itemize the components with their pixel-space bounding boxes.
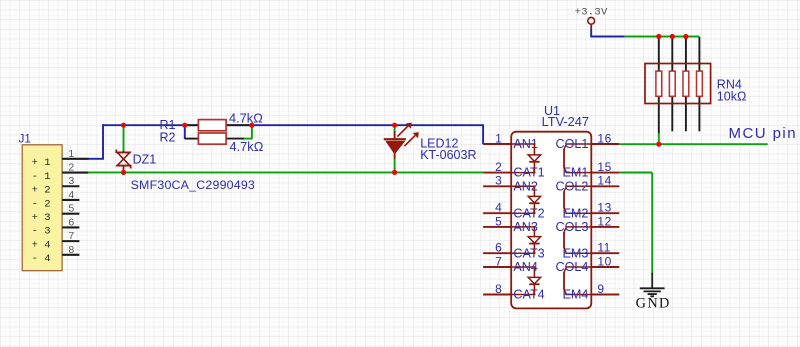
- svg-text:CAT2: CAT2: [513, 206, 544, 220]
- svg-text:- 4: - 4: [32, 253, 51, 265]
- svg-text:1: 1: [68, 148, 74, 160]
- svg-text:EM1: EM1: [562, 166, 588, 180]
- svg-text:6: 6: [495, 241, 502, 255]
- svg-text:5: 5: [68, 203, 74, 215]
- svg-text:- 1: - 1: [32, 171, 51, 183]
- svg-text:14: 14: [597, 174, 611, 188]
- svg-text:J1: J1: [19, 133, 31, 145]
- svg-text:EM3: EM3: [562, 246, 588, 260]
- svg-text:LTV-247: LTV-247: [542, 114, 589, 129]
- svg-text:MCU pin: MCU pin: [729, 125, 798, 142]
- svg-text:9: 9: [597, 282, 604, 296]
- svg-text:13: 13: [597, 201, 611, 215]
- svg-text:EM4: EM4: [562, 288, 588, 302]
- svg-text:10: 10: [597, 254, 611, 268]
- svg-text:SMF30CA_C2990493: SMF30CA_C2990493: [131, 178, 255, 192]
- svg-text:CAT3: CAT3: [513, 246, 544, 260]
- svg-text:+ 4: + 4: [32, 239, 51, 251]
- svg-text:+ 3: + 3: [32, 212, 51, 224]
- svg-text:7: 7: [495, 254, 502, 268]
- svg-text:12: 12: [597, 214, 611, 228]
- svg-text:4: 4: [68, 189, 74, 201]
- svg-text:COL1: COL1: [555, 137, 588, 151]
- svg-text:+3.3V: +3.3V: [575, 6, 608, 18]
- svg-text:4: 4: [495, 201, 502, 215]
- svg-text:COL3: COL3: [555, 220, 588, 234]
- svg-text:+ 1: + 1: [32, 157, 51, 169]
- svg-text:4.7kΩ: 4.7kΩ: [229, 110, 263, 125]
- svg-text:1: 1: [495, 131, 502, 145]
- svg-text:+ 2: + 2: [32, 185, 51, 197]
- svg-text:EM2: EM2: [562, 206, 588, 220]
- svg-text:15: 15: [597, 160, 611, 174]
- svg-text:COL2: COL2: [555, 179, 588, 193]
- svg-text:4.7kΩ: 4.7kΩ: [230, 139, 264, 154]
- svg-text:5: 5: [495, 214, 502, 228]
- svg-text:- 3: - 3: [32, 226, 51, 238]
- svg-text:CAT4: CAT4: [513, 288, 544, 302]
- svg-text:3: 3: [68, 175, 74, 187]
- svg-text:7: 7: [68, 230, 74, 242]
- svg-text:GND: GND: [636, 296, 671, 312]
- svg-text:8: 8: [68, 244, 74, 256]
- svg-text:2: 2: [495, 160, 502, 174]
- svg-text:DZ1: DZ1: [133, 152, 157, 166]
- svg-text:16: 16: [597, 131, 611, 145]
- svg-text:3: 3: [495, 174, 502, 188]
- svg-text:- 2: - 2: [32, 198, 51, 210]
- svg-text:R2: R2: [160, 131, 176, 145]
- svg-text:2: 2: [68, 162, 74, 174]
- svg-text:COL4: COL4: [555, 260, 588, 274]
- svg-text:6: 6: [68, 216, 74, 228]
- svg-text:8: 8: [495, 282, 502, 296]
- svg-text:CAT1: CAT1: [513, 166, 544, 180]
- svg-text:11: 11: [597, 241, 610, 255]
- svg-text:KT-0603R: KT-0603R: [420, 148, 476, 162]
- svg-text:10kΩ: 10kΩ: [717, 89, 747, 103]
